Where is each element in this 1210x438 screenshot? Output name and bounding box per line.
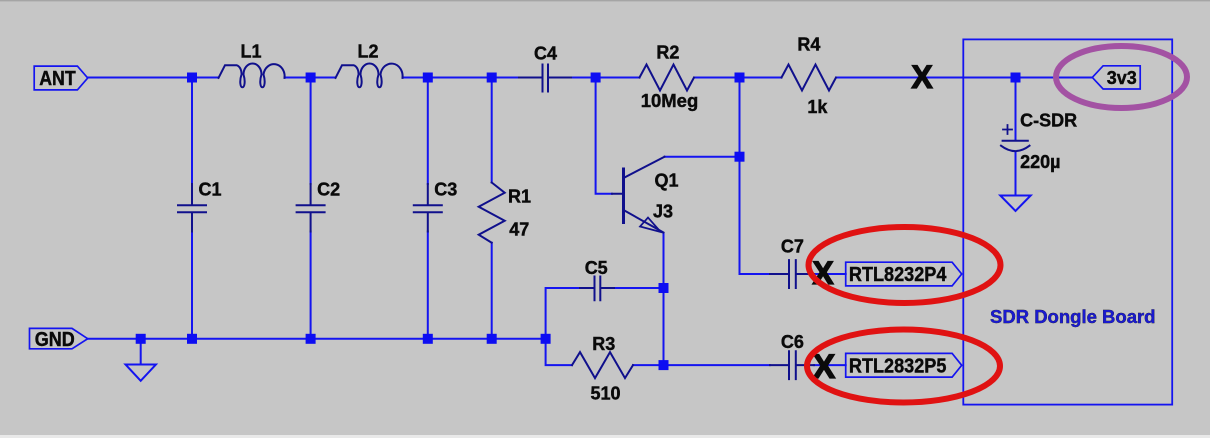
purple ellipse around 3v3: [1056, 46, 1187, 108]
port ANT: [34, 66, 87, 90]
port RTL8232P4: [846, 262, 962, 286]
node at C4 right: [591, 73, 601, 83]
svg-text:R2: R2: [656, 42, 679, 62]
svg-text:L1: L1: [241, 42, 262, 62]
svg-text:Q1: Q1: [655, 171, 679, 191]
ground flag under C-SDR: [1000, 196, 1030, 212]
resistor R2: [640, 65, 695, 91]
svg-text:L2: L2: [358, 42, 379, 62]
resistor R4: [782, 65, 837, 91]
node at Q1 collector: [735, 152, 745, 162]
capacitor C2: [297, 184, 325, 232]
wire: R3 line to C6 and RTL2832P5: [633, 364, 846, 366]
svg-text:C-SDR: C-SDR: [1020, 110, 1077, 130]
svg-text:R4: R4: [797, 35, 820, 55]
capacitor C6: [770, 351, 814, 379]
port 3v3: [1092, 66, 1140, 89]
resistor R1: [479, 183, 505, 243]
node at R1 top: [487, 73, 497, 83]
capacitor C3: [414, 184, 442, 232]
svg-text:220µ: 220µ: [1020, 152, 1060, 172]
wire: emitter vertical down to R3 line: [663, 234, 665, 366]
svg-text:C2: C2: [317, 179, 340, 199]
wire: C7 to RTL8232P4: [814, 273, 846, 275]
inductor L2: [336, 63, 403, 87]
wire: C3 vertical: [427, 78, 429, 339]
svg-text:C6: C6: [781, 332, 804, 352]
svg-text:R3: R3: [592, 334, 615, 354]
node at 3v3: [1011, 73, 1021, 83]
node at R3 right: [659, 360, 669, 370]
port RTL2832P5: [846, 353, 962, 377]
svg-text:C4: C4: [534, 44, 557, 64]
node at R2 right: [735, 73, 745, 83]
node at R3 left rail: [541, 334, 551, 344]
wire: C2 vertical: [310, 78, 312, 339]
svg-text:RTL8232P4: RTL8232P4: [849, 264, 947, 286]
junction nodes (blue squares): [136, 73, 1021, 371]
wire: collector node vertical and to C7: [665, 78, 771, 275]
wire: top rail R2 to 3v3: [695, 77, 1093, 79]
svg-text:SDR Dongle Board: SDR Dongle Board: [990, 306, 1155, 327]
svg-text:ANT: ANT: [39, 68, 75, 90]
wire: ground stub at GND port: [140, 339, 142, 365]
wire: C5 line: [546, 288, 664, 365]
svg-text:GND: GND: [35, 329, 75, 351]
inductor L1: [219, 63, 285, 87]
node at Q1 emitter / C5: [659, 283, 669, 293]
red ellipse around RTL2832P5: [807, 330, 1000, 403]
capacitor C-SDR (polarized): [1001, 125, 1030, 151]
svg-text:10Meg: 10Meg: [641, 90, 699, 111]
wire: C-SDR vertical: [1015, 78, 1017, 196]
svg-text:C7: C7: [781, 237, 804, 257]
svg-text:R1: R1: [508, 186, 531, 206]
capacitor C5: [580, 277, 614, 301]
node at C2 bottom: [306, 334, 316, 344]
svg-text:X: X: [911, 59, 933, 95]
svg-text:3v3: 3v3: [1107, 67, 1137, 88]
node at C3 top: [423, 73, 433, 83]
svg-text:1k: 1k: [807, 97, 828, 117]
node at C2 top: [306, 73, 316, 83]
wire: base of Q1 from C4 node: [596, 78, 612, 194]
node at R1 bottom: [487, 334, 497, 344]
node at C3 bottom: [423, 334, 433, 344]
svg-text:C3: C3: [434, 179, 457, 199]
node at C1 top: [187, 73, 197, 83]
port GND: [30, 328, 88, 348]
transistor Q1: [612, 157, 665, 233]
SDR dongle board box: [963, 39, 1172, 404]
wire: C1 vertical: [191, 78, 193, 339]
capacitor C1: [178, 184, 206, 232]
capacitor C7: [770, 260, 814, 288]
resistor R3: [572, 352, 633, 378]
svg-text:47: 47: [509, 220, 529, 240]
red ellipse around RTL8232P4: [809, 227, 1001, 303]
wire: bottom GND rail: [88, 338, 546, 340]
svg-text:RTL2832P5: RTL2832P5: [849, 356, 947, 378]
node at C1 bottom: [187, 334, 197, 344]
wire: R1 vertical: [491, 78, 493, 339]
node at ground flag: [136, 334, 146, 344]
svg-text:C1: C1: [199, 179, 222, 199]
wire: top rail ANT to C4: [88, 77, 640, 79]
capacitor C4: [519, 65, 571, 92]
svg-text:J3: J3: [653, 202, 673, 222]
svg-text:510: 510: [591, 384, 621, 404]
ground flag at GND: [126, 365, 156, 381]
svg-text:C5: C5: [585, 258, 608, 278]
